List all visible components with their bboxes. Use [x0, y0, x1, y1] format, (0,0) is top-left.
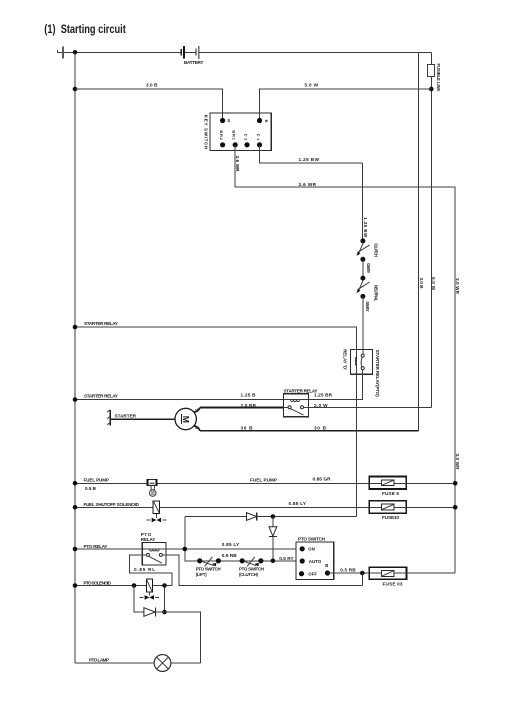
wire FUEL SHUTOFF 0.85 LY [75, 506, 369, 508]
fuel shutoff solenoid [146, 501, 166, 522]
node starter relay feed junction [73, 325, 78, 330]
svg-text:FUSE 03: FUSE 03 [383, 581, 403, 586]
wire flyback loop [134, 586, 144, 613]
svg-text:0.5 RB: 0.5 RB [222, 553, 238, 558]
svg-text:RELAY: RELAY [141, 537, 156, 542]
svg-text:3.0 B: 3.0 B [146, 83, 158, 88]
svg-text:0.85 LY: 0.85 LY [222, 542, 240, 547]
svg-text:PTO SWITCH: PTO SWITCH [298, 536, 326, 541]
svg-text:30 B: 30 B [241, 426, 254, 431]
pin C1 [257, 142, 262, 147]
diode D2 [269, 527, 277, 537]
svg-text:AUTO: AUTO [309, 559, 322, 564]
svg-text:KEY SWITCH: KEY SWITCH [204, 115, 209, 150]
ground [57, 46, 64, 58]
node fuse30 junction [360, 571, 365, 576]
svg-text:3.6 WR: 3.6 WR [235, 156, 240, 173]
node pto relay junction [73, 547, 78, 552]
svg-text:B: B [325, 563, 328, 568]
node fuse5 junction [453, 481, 458, 486]
svg-text:STARTER RELAY: STARTER RELAY [84, 321, 118, 326]
svg-text:0.85 LY: 0.85 LY [289, 501, 307, 506]
wire PTO SOLENOID line [75, 585, 172, 587]
node flyback right junction [162, 583, 167, 588]
wire pto relay contact right [162, 555, 362, 585]
wire fuse10 to 3.0WR rail [406, 506, 455, 508]
svg-text:R: R [226, 119, 231, 122]
wire 3.0 B to key switch R [75, 89, 223, 118]
fuse F5 FUSE 5 [369, 477, 406, 496]
pin B [325, 570, 330, 575]
svg-text:FUSIBLE LINK: FUSIBLE LINK [436, 64, 441, 92]
wire 2.0 BR starter S [200, 407, 284, 409]
svg-text:0.5 RY: 0.5 RY [279, 556, 294, 561]
svg-text:2.0 W: 2.0 W [314, 403, 328, 408]
pin BR2 [220, 142, 225, 147]
fuse F30 FUSE 03 [369, 567, 406, 586]
wire relay D contact to 1.25 BR [308, 370, 362, 400]
svg-text:0.5 B: 0.5 B [85, 486, 97, 491]
wire diode feed line [185, 516, 357, 518]
relay D coil bumps [355, 357, 356, 365]
wire diode D2 drop [272, 517, 274, 561]
svg-text:(LIFT): (LIFT) [196, 572, 208, 577]
pin ON [300, 546, 305, 551]
wire PTO RELAY 0.85 LY [75, 548, 296, 550]
svg-text:(1) Starting circuit: (1) Starting circuit [44, 23, 126, 36]
wire flyback to lamp [155, 612, 200, 663]
neutral switch NEUTRAL [357, 276, 379, 302]
svg-text:5.0 W: 5.0 W [431, 277, 436, 291]
wire PTO LAMP line [75, 662, 201, 664]
fusible link [428, 52, 441, 91]
svg-text:FUEL PUMP: FUEL PUMP [250, 478, 277, 483]
svg-text:1.25 BW: 1.25 BW [363, 217, 368, 238]
svg-text:3.0 WR: 3.0 WR [455, 454, 460, 471]
svg-text:BR2: BR2 [219, 130, 224, 140]
node pto feed junction [183, 547, 188, 552]
svg-text:PTO SOLENOID: PTO SOLENOID [84, 580, 112, 585]
svg-text:1.25 BW: 1.25 BW [299, 157, 320, 162]
starter relay coil bumps [291, 400, 300, 402]
wire 0.5 BY neutral to relay D [362, 296, 364, 354]
node 1.25B junction [73, 397, 78, 402]
pin C2 [244, 142, 249, 147]
pto relay PTO RELAY box [141, 532, 166, 565]
pto switch box PTO SWITCH [296, 536, 334, 579]
battery [181, 46, 203, 65]
node pto solenoid junction [73, 583, 78, 588]
node flyback left junction [132, 583, 137, 588]
lamp PTO LAMP [154, 655, 171, 672]
node gnd-3.0B junction [73, 87, 78, 92]
svg-text:0.85 GR: 0.85 GR [313, 477, 332, 482]
svg-text:NEUTRAL: NEUTRAL [374, 285, 379, 302]
svg-text:C1: C1 [256, 134, 261, 141]
svg-text:FUEL SHUTOFF SOLENOID: FUEL SHUTOFF SOLENOID [84, 502, 140, 507]
svg-text:PTO SWITCH: PTO SWITCH [196, 567, 221, 572]
node diode junction [271, 514, 276, 519]
svg-text:3.0 B: 3.0 B [419, 278, 424, 290]
svg-text:OFF: OFF [308, 572, 317, 577]
wire battery negative [64, 51, 181, 53]
svg-text:30 B: 30 B [314, 426, 327, 431]
pto relay contact [146, 553, 149, 556]
svg-text:5.0 W: 5.0 W [305, 83, 319, 88]
pin R [220, 118, 225, 123]
svg-text:1.25 B: 1.25 B [241, 393, 257, 398]
wire 5.0 W key switch B to fusible link [260, 89, 432, 118]
clutch switch CLUTCH [357, 238, 379, 261]
pin AUTO [300, 558, 305, 563]
wire pto relay contact left 0.85 RL [130, 555, 173, 586]
wire 1.25 B starter relay coil [75, 399, 284, 401]
svg-text:FUSE 5: FUSE 5 [382, 491, 399, 496]
wire battery positive to fusible link [185, 51, 196, 53]
svg-text:BR1: BR1 [232, 130, 237, 140]
wire 30 B starter B to battery cable [200, 430, 418, 432]
svg-text:STARTER: STARTER [115, 414, 137, 419]
wire C1 to 1.25 BW [260, 145, 363, 163]
svg-text:ON: ON [308, 547, 315, 552]
pin B [257, 118, 262, 123]
svg-text:PTO LAMP: PTO LAMP [89, 658, 109, 663]
node fuse10 junction [453, 505, 458, 510]
wire 30B battery cable vertical [417, 52, 419, 431]
relay D contact [361, 354, 364, 357]
svg-text:M: M [181, 416, 191, 423]
node fusible link / 5.0W junction [429, 87, 434, 92]
svg-text:RELAY 'D': RELAY 'D' [343, 349, 348, 370]
svg-text:STARTER RELAY(PTO): STARTER RELAY(PTO) [375, 350, 380, 398]
fuse F10 FUSE 10 [369, 501, 406, 520]
svg-text:2.0 BR: 2.0 BR [241, 403, 257, 408]
starter motor M [175, 408, 200, 431]
wire B to fuse30 [328, 572, 370, 574]
node diode to line B junction [271, 559, 276, 564]
wire fusible link down 5.0 W [430, 77, 432, 408]
wire STARTER RELAY coil feed [75, 327, 357, 517]
svg-text:0.85 RL: 0.85 RL [134, 567, 155, 572]
svg-text:PTO RELAY: PTO RELAY [84, 544, 108, 549]
wire 1.25 BW down to clutch switch [362, 163, 364, 241]
svg-text:STARTER RELAY: STARTER RELAY [84, 394, 118, 399]
svg-text:B: B [264, 120, 269, 123]
op-amp? no: relay U relay D box [343, 349, 380, 397]
wire fuse5 to 3.0WR rail [406, 482, 455, 484]
node fuel shutoff junction [73, 505, 78, 510]
svg-text:PTO SWITCH: PTO SWITCH [239, 567, 264, 572]
pin OFF [299, 571, 304, 576]
svg-text:0.5 BY: 0.5 BY [365, 302, 370, 312]
svg-text:0.5 RB: 0.5 RB [340, 568, 356, 573]
svg-text:CLUTCH: CLUTCH [374, 243, 379, 257]
wire 0.5 BY clutch-neutral [362, 259, 364, 278]
wire FUEL PUMP 0.85 GR [75, 482, 369, 484]
wire fuse30 to 3.0WR rail [407, 572, 456, 574]
svg-text:FUSE10: FUSE10 [382, 515, 399, 520]
wire BR1 3.6 WR vertical [234, 145, 236, 187]
wire starter ground lead [111, 418, 175, 420]
key switch KEY SWITCH [204, 113, 272, 150]
diode D3 flyback [144, 608, 156, 617]
svg-text:C2: C2 [243, 134, 248, 141]
svg-text:0.5 BY: 0.5 BY [366, 263, 371, 273]
wire pto switch line 0.5RB 0.5RY [200, 560, 296, 562]
diode D1 [247, 513, 257, 521]
svg-text:FUEL PUMP: FUEL PUMP [84, 478, 110, 483]
wire 2.0 W [308, 407, 431, 409]
pto switch clutch [239, 557, 264, 577]
node flyback out junction [162, 610, 167, 615]
starter relay contact [288, 406, 291, 409]
node battery-gnd junction [73, 50, 78, 55]
wire 3.6 WR horizontal [235, 187, 455, 573]
starter relay STARTER RELAY box [284, 388, 318, 416]
svg-text:(CLUTCH): (CLUTCH) [239, 572, 259, 577]
svg-text:BATTERY: BATTERY [184, 60, 204, 65]
pto relay coil bumps [150, 549, 160, 551]
node fuel pump junction [73, 481, 78, 486]
fuel pump symbol [147, 479, 156, 496]
wire ground rail [74, 52, 76, 663]
wire junction down to pto feed return [361, 573, 363, 585]
svg-text:3.6 WR: 3.6 WR [299, 182, 317, 187]
pto solenoid [140, 579, 160, 600]
pin BR1 [233, 142, 238, 147]
wire feed drop to PTO [185, 517, 200, 561]
starter relay interior wire [284, 399, 309, 401]
svg-text:STARTER RELAY: STARTER RELAY [284, 388, 318, 393]
svg-text:3.0 WR: 3.0 WR [455, 278, 460, 295]
starter ground [107, 410, 110, 426]
pto switch lift [196, 557, 221, 577]
